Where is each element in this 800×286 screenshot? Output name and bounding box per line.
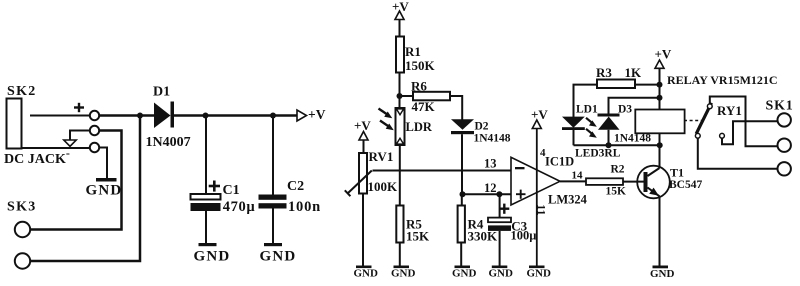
node R1/R6/LDR [397, 93, 403, 99]
wire contact3 to ground [99, 148, 107, 179]
ground (T1) [650, 266, 675, 281]
+V output arrow [297, 107, 326, 122]
wire +V to R1 [399, 20, 401, 37]
wire C3 to ground [499, 231, 501, 266]
svg-text:150K: 150K [405, 58, 436, 73]
jack switch lever wire [70, 131, 90, 141]
svg-text:RY1: RY1 [717, 103, 742, 118]
svg-text:GND: GND [194, 249, 231, 265]
svg-text:SK1: SK1 [766, 99, 794, 114]
jack switch arrow [64, 140, 76, 146]
LED LD1 [562, 103, 598, 130]
ground (R5) [391, 266, 416, 280]
connector SK1 pin 3 [778, 162, 791, 175]
svg-text:47K: 47K [412, 99, 436, 114]
svg-text:4: 4 [540, 147, 546, 159]
+V supply (top middle) [392, 0, 409, 20]
wire T1 emitter to ground [659, 196, 661, 265]
svg-text:C1: C1 [223, 183, 240, 198]
svg-text:+V: +V [531, 107, 548, 122]
svg-text:LD1: LD1 [576, 103, 598, 115]
wire op-amp output to R2 [560, 180, 586, 182]
svg-text:11: 11 [535, 204, 549, 215]
node D2/R4 pin12 [460, 191, 466, 197]
resistor R4 [458, 194, 498, 243]
svg-text:+V: +V [354, 118, 371, 133]
svg-text:+V: +V [655, 47, 672, 62]
wire pin12 [463, 193, 512, 195]
node D3 bottom [606, 142, 612, 148]
potentiometer RV1 [345, 149, 398, 196]
ground (op-amp pin 11) [527, 266, 552, 280]
wire C1 to ground [205, 211, 207, 243]
svg-text:1N4007: 1N4007 [146, 135, 191, 150]
+V supply (RV1) [354, 118, 371, 140]
svg-text:15K: 15K [606, 186, 627, 198]
ground (jack) [96, 178, 117, 182]
diode D3 [598, 103, 652, 144]
node C2 tap [270, 113, 276, 119]
wire D3 anode down [608, 130, 610, 146]
jack contact 3 (sleeve) [90, 143, 99, 152]
capacitor C1 [191, 181, 256, 216]
wire R2 to T1 base [623, 181, 646, 183]
wire R6 to D2 [450, 96, 462, 120]
op-amp IC1D [511, 155, 588, 207]
resistor R2 [586, 164, 626, 198]
wire jack sleeve to contact 3 [22, 147, 91, 149]
relay coil box [635, 110, 684, 134]
connector SK1 pin 1 [778, 113, 791, 126]
wire C2 to ground [272, 209, 274, 244]
svg-text:1N4148: 1N4148 [614, 133, 651, 145]
LD1 light arrow 1 [586, 118, 597, 127]
connector SK1 pin 2 [778, 139, 791, 152]
diode D1 [146, 85, 191, 151]
svg-text:R2: R2 [611, 164, 625, 176]
svg-text:LDR: LDR [406, 120, 433, 134]
svg-text:100K: 100K [368, 179, 399, 194]
op-amp power rail wire [536, 129, 538, 266]
svg-text:BC547: BC547 [669, 179, 702, 191]
wire node to C1 [205, 116, 207, 195]
ground (C2) [260, 243, 297, 265]
LDR light arrow 2 [380, 121, 394, 131]
svg-text:D1: D1 [153, 85, 170, 100]
svg-text:1N4148: 1N4148 [474, 132, 511, 144]
svg-text:1K: 1K [625, 65, 643, 80]
connector SK3 pin 1 [15, 222, 30, 237]
node collector junction [657, 142, 663, 148]
ground (C1) [194, 243, 231, 265]
svg-text:GND: GND [354, 268, 379, 280]
wire common to SK1 bottom [698, 138, 778, 169]
svg-text:GND: GND [650, 268, 675, 280]
svg-text:12: 12 [484, 181, 497, 195]
svg-text:SK3: SK3 [7, 200, 37, 215]
wire tip node to SK3 pin2 [30, 116, 140, 262]
svg-text:100n: 100n [288, 199, 321, 215]
wire RV1 to ground [362, 194, 364, 266]
node C3 tap [496, 191, 502, 197]
svg-text:+V: +V [308, 107, 326, 122]
wire RV1 wiper to op-amp pin13 [373, 170, 512, 172]
wire node to R6 [400, 95, 414, 97]
svg-text:14: 14 [572, 169, 584, 181]
svg-text:RV1: RV1 [369, 149, 394, 164]
svg-text:IC1D: IC1D [545, 155, 574, 169]
wire D2 to node [461, 134, 463, 194]
resistor R5 [396, 206, 430, 244]
+V supply (op-amp pin 4) [531, 107, 548, 129]
svg-text:D3: D3 [618, 103, 632, 115]
LDR light arrow 1 [379, 109, 393, 119]
wire node to C2 [272, 116, 274, 195]
wire R5 to ground [399, 243, 401, 266]
svg-text:GND: GND [489, 268, 514, 280]
svg-text:T1: T1 [670, 165, 684, 179]
ground (R4) [452, 266, 477, 280]
node D3 tap [657, 95, 663, 101]
svg-text:C2: C2 [287, 179, 304, 194]
resistor R1 [396, 37, 436, 74]
relay contact NC [720, 133, 725, 138]
svg-text:100µ: 100µ [511, 228, 537, 242]
svg-text:13: 13 [484, 157, 497, 171]
wire jack contact2 to SK3 pin1 [30, 131, 121, 230]
wire LDR to R5 [399, 145, 401, 206]
jack contact 1 (tip) [90, 111, 99, 120]
svg-text:R3: R3 [596, 65, 612, 80]
wire R3 right to +V rail [635, 84, 660, 86]
LD1 light arrow 2 [586, 129, 597, 138]
relay contact common [695, 133, 700, 138]
svg-text:D2: D2 [475, 120, 489, 132]
DC jack body SK2 [7, 99, 22, 149]
svg-text:GND: GND [527, 268, 552, 280]
relay actuator dashed link [684, 120, 702, 122]
wire jack tip to diode D1 [99, 114, 154, 117]
svg-text:GND: GND [260, 249, 297, 265]
wire +V to RV1 [363, 140, 365, 153]
resistor R3 [596, 65, 642, 88]
jack contact 2 (switch) [90, 126, 99, 135]
wire R1 to LDR [399, 73, 401, 109]
svg-text:LED3RL: LED3RL [575, 148, 621, 160]
svg-text:LM324: LM324 [548, 193, 588, 207]
svg-text:R6: R6 [411, 79, 427, 94]
svg-text:R1: R1 [405, 44, 421, 59]
relay switch arm RY1 [696, 103, 711, 134]
wire NO contact to SK1 middle [710, 97, 778, 147]
label + (tip polarity) [74, 103, 84, 112]
LDR [396, 108, 433, 145]
relay contact NO [707, 104, 712, 109]
svg-text:GND: GND [86, 183, 123, 199]
ground (RV1) [354, 266, 379, 280]
+V supply (relay) [655, 47, 672, 69]
wire NC contact to SK1 top [722, 121, 778, 144]
node C1 tap [203, 113, 209, 119]
wire LD1 to bottom rail [573, 130, 575, 145]
wire jack tip pin [30, 115, 90, 117]
wire relay coil bottom to node [659, 133, 661, 145]
ground (C3) [489, 266, 514, 280]
svg-text:SK2: SK2 [7, 84, 37, 99]
wire R3 left to LD1 [574, 85, 598, 117]
node tip junction [137, 113, 143, 119]
connector SK3 pin 2 [15, 253, 30, 268]
wire LED/D3 bottom rail to collector node [574, 144, 660, 146]
svg-text:470µ: 470µ [223, 199, 256, 215]
diode D2 [451, 119, 511, 144]
wire R4 to ground [460, 243, 462, 266]
wire D3 cathode to +V rail [609, 98, 660, 114]
svg-text:GND: GND [452, 268, 477, 280]
node R3 tap [657, 82, 663, 88]
svg-text:15K: 15K [406, 228, 430, 243]
capacitor C3 [488, 194, 536, 242]
wire D1 cathode to +V arrow [174, 114, 297, 117]
svg-text:RELAY VR15M121C: RELAY VR15M121C [667, 73, 778, 87]
svg-text:GND: GND [391, 268, 416, 280]
resistor R6 [411, 79, 450, 115]
capacitor C2 [259, 179, 322, 215]
wire +V down to relay coil [659, 68, 661, 109]
transistor T1 [637, 145, 702, 198]
